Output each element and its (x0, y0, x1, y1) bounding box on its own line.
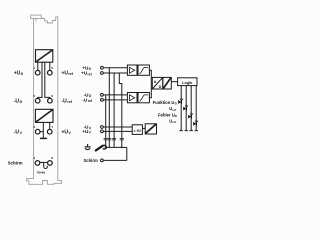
svg-text:-U: -U (14, 98, 20, 104)
capacitor C3s on v3 (112, 138, 116, 140)
wire shield terminal D (103, 159, 127, 161)
monitor box with diagonal (145, 124, 156, 134)
capacitor C1s on v1 (104, 138, 108, 140)
LED D2 (183, 105, 188, 111)
wire C2 to DC converter (103, 130, 132, 132)
wire amp outputs to A/D (149, 70, 151, 98)
block terminal B1 -UD (101, 94, 104, 97)
wire vertical tap v2 (108, 68, 110, 148)
characteristic box A2 (138, 93, 149, 103)
svg-text:-U: -U (62, 98, 68, 104)
wire logic output 4 (195, 86, 197, 131)
wire converter to monitor box (142, 127, 145, 129)
chassis hook under shield link (44, 162, 48, 168)
wire terminal 3 tap (40, 131, 43, 133)
wire isolation to logic (171, 81, 177, 83)
terminal 2 (35, 98, 40, 103)
characteristic box A1 (138, 65, 149, 75)
junction dot on rail (121, 147, 123, 149)
wire box U2 to terminal 7 (49, 122, 51, 129)
functional earth symbol annotation (85, 144, 91, 150)
A/D converter box (152, 77, 162, 89)
svg-text:D: D (159, 85, 162, 89)
terminal 1 (35, 70, 40, 75)
characteristic curve A1 (139, 67, 148, 73)
amplifier box A2 (127, 93, 137, 103)
wire vertical tap v3 (113, 73, 115, 147)
svg-text:ref: ref (67, 100, 72, 104)
wire pins from box U1 to terminals (37, 62, 39, 70)
op-amp triangle A1 (129, 67, 134, 73)
block terminal A2 +Uref (101, 72, 104, 75)
wire B1 to amplifier (103, 94, 127, 96)
supply box U2 (lower transducer with diagonal) (35, 109, 53, 122)
capacitor C4s on v4 (120, 138, 124, 140)
wire logic output 1 (180, 86, 182, 131)
bridge box U1 (upper transducer with diagonal) (36, 50, 53, 63)
svg-text:ref: ref (172, 120, 176, 124)
svg-text:+U: +U (62, 70, 69, 76)
wire vertical tap v1 (105, 95, 107, 147)
chassis symbol annotation (96, 145, 107, 150)
svg-text:-U: -U (14, 129, 20, 135)
op-amp triangle A2 (129, 95, 134, 101)
terminal 5 (48, 70, 53, 75)
wire center pin to functional earth (42, 122, 44, 137)
functional earth bar (40, 137, 47, 139)
svg-text:D: D (20, 100, 23, 104)
svg-text:A: A (154, 80, 157, 84)
wire C1 to DC converter (103, 126, 132, 128)
svg-text:+U: +U (14, 70, 21, 76)
svg-text:Fehler U: Fehler U (158, 112, 175, 117)
terminal 4 shield (35, 161, 40, 166)
terminal 6 (48, 98, 53, 103)
svg-text:Logik: Logik (182, 81, 193, 85)
LED D1 (178, 98, 183, 104)
wire B2 to amplifier (103, 99, 127, 101)
logic box (178, 78, 197, 86)
wire shield link (40, 161, 48, 163)
block terminal B2 -Uref (101, 99, 104, 102)
svg-text:Schirm: Schirm (8, 160, 23, 165)
svg-text:+U: +U (62, 129, 69, 135)
LED D3 (188, 113, 193, 119)
wire vertical tap v4 with jog (119, 73, 122, 147)
block terminal D shield (101, 159, 104, 162)
capacitor C2s on v2 (107, 138, 111, 140)
svg-text:D: D (21, 72, 24, 76)
svg-text:Schirm: Schirm (84, 158, 98, 163)
svg-text:750-491: 750-491 (37, 171, 46, 175)
amplifier box A1 (127, 65, 137, 75)
svg-text:ref: ref (68, 72, 73, 76)
characteristic curve A2 (139, 95, 148, 101)
svg-text:Funktion U: Funktion U (153, 100, 175, 105)
wire logic output 2 (185, 86, 187, 131)
svg-text:ref: ref (172, 108, 176, 112)
wire rail down to shield terminal (126, 147, 128, 160)
module housing outline (27, 15, 62, 184)
LED D4 (193, 120, 198, 126)
block terminal C1 -UV (101, 126, 104, 129)
wire logic output 3 (190, 86, 192, 131)
wire shield rail (105, 146, 127, 148)
block terminal A1 +UD (101, 66, 104, 69)
terminal 7 (47, 129, 52, 134)
DC converter box =5V (132, 125, 142, 135)
terminal 3 (35, 129, 40, 134)
wire A2 to amplifier (103, 72, 127, 74)
terminal 8 shield (48, 161, 53, 166)
bus end bars (180, 130, 198, 132)
isolation barrier box (163, 77, 171, 89)
svg-text:= 5V: = 5V (134, 129, 142, 133)
block terminal C2 +UV (101, 130, 104, 133)
wire A1 to amplifier (103, 67, 127, 69)
